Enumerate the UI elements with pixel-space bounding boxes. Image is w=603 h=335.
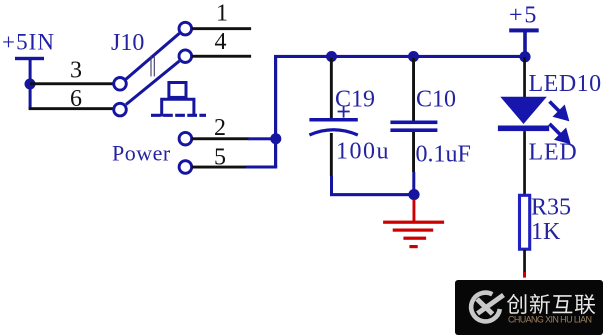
- svg-text:J10: J10: [111, 30, 144, 56]
- svg-text:100u: 100u: [336, 139, 390, 165]
- svg-text:C19: C19: [335, 86, 375, 112]
- svg-text:5: 5: [214, 145, 226, 171]
- svg-text:1K: 1K: [531, 219, 561, 245]
- svg-text:0.1uF: 0.1uF: [416, 142, 471, 168]
- svg-text:R35: R35: [531, 195, 571, 221]
- svg-text:Power: Power: [112, 141, 171, 166]
- svg-text:C10: C10: [416, 87, 456, 113]
- svg-text:+5IN: +5IN: [2, 30, 55, 55]
- svg-text:LED10: LED10: [529, 71, 602, 97]
- svg-text:1: 1: [216, 1, 228, 27]
- svg-text:2: 2: [214, 115, 226, 141]
- svg-text:6: 6: [70, 86, 82, 112]
- svg-text:3: 3: [70, 58, 82, 84]
- svg-text:CHUANG XIN HU LIAN: CHUANG XIN HU LIAN: [508, 314, 591, 324]
- svg-text:4: 4: [215, 29, 227, 55]
- svg-text:LED: LED: [529, 140, 578, 166]
- svg-text:+5: +5: [509, 3, 538, 29]
